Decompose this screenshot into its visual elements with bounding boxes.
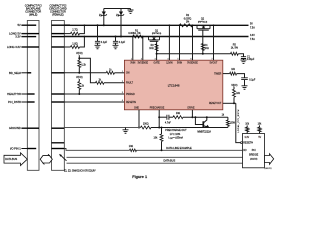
svg-text:PCI: PCI — [252, 149, 256, 152]
svg-text:5VSENSE: 5VSENSE — [187, 63, 198, 65]
svg-text:= ±55mA: = ±55mA — [173, 137, 183, 140]
resistor R5 1k 5% — [231, 52, 239, 55]
DATA BUS arrow into backplane — [4, 153, 27, 166]
svg-text:V(I/O): V(I/O) — [76, 52, 83, 55]
svg-text:2.7Ω: 2.7Ω — [72, 28, 78, 32]
resistor R1 0.006 ohm — [133, 35, 143, 38]
node reset bubble — [241, 142, 243, 144]
resistor 1.8 ohm (LONG 3.3V) — [64, 46, 70, 48]
svg-text:0.007Ω: 0.007Ω — [184, 18, 192, 20]
wire I/O PIN 1 line — [64, 149, 129, 151]
female extra socket bar — [52, 142, 65, 144]
wire precharge out row — [159, 127, 228, 129]
svg-text:3: 3 — [122, 92, 123, 94]
svg-text:1V ± 10%: 1V ± 10% — [170, 133, 181, 136]
wire BD_SEL# to ON — [64, 72, 106, 74]
svg-text:GND: GND — [134, 108, 139, 110]
svg-text:12VIN: 12VIN — [166, 63, 173, 65]
data bus entry arrow — [60, 154, 67, 161]
svg-text:7: 7 — [212, 58, 213, 60]
resistor 10k (3.3V pull-up) — [246, 132, 248, 134]
svg-text:PWRGD: PWRGD — [126, 94, 135, 96]
wire data bus lines — [67, 156, 243, 158]
resistor R2 0.007 ohm — [179, 24, 192, 27]
resistor 100 ohm — [141, 126, 152, 129]
svg-text:7.5A: 7.5A — [250, 38, 255, 41]
circuit card connector J2 (female) — [52, 21, 65, 171]
svg-text:1k, 5%: 1k, 5% — [231, 48, 238, 50]
svg-text:GROUND: GROUND — [9, 126, 21, 130]
svg-text:LONG 3.3V: LONG 3.3V — [7, 45, 21, 49]
svg-text:Z1, Z2: SMAJ10CA OR EQUIV: Z1, Z2: SMAJ10CA OR EQUIV — [64, 170, 96, 173]
wire LOCAL_PCI_RST# — [236, 103, 241, 142]
PCI bridge U2 — [243, 134, 265, 168]
svg-text:RESETIN: RESETIN — [126, 102, 136, 104]
wire LONG 5V riser — [80, 25, 85, 33]
svg-text:1: 1 — [131, 58, 132, 60]
svg-text:LTC1646: LTC1646 — [168, 83, 180, 87]
svg-text:I/O PIN 1: I/O PIN 1 — [10, 147, 21, 151]
svg-text:1.8Ω: 1.8Ω — [72, 42, 78, 46]
svg-text:1%: 1% — [186, 22, 189, 24]
svg-text:V(I/O): V(I/O) — [76, 76, 83, 79]
svg-text:0.1μF: 0.1μF — [249, 79, 256, 81]
wire 5VIN tap — [179, 25, 181, 60]
svg-text:FAULT: FAULT — [126, 82, 134, 85]
svg-text:HEALTHY#: HEALTHY# — [7, 92, 21, 96]
svg-text:0.01μF: 0.01μF — [247, 59, 255, 61]
svg-text:ON: ON — [126, 73, 130, 75]
bus double arrow between connectors — [40, 156, 52, 163]
zener Z1 — [103, 9, 105, 26]
svg-text:PCI_RST#: PCI_RST# — [8, 100, 21, 104]
svg-text:0.1μF: 0.1μF — [119, 41, 126, 44]
svg-text:10Ω: 10Ω — [149, 48, 154, 50]
wire LONG 3.3V riser — [80, 37, 85, 48]
svg-text:10Ω: 10Ω — [176, 113, 181, 115]
svg-text:PRECHARGE: PRECHARGE — [150, 107, 165, 110]
wire GATE pin lead — [156, 41, 158, 60]
svg-text:(MALE): (MALE) — [29, 13, 37, 17]
svg-text:3VSENSE: 3VSENSE — [137, 63, 148, 65]
svg-text:DATA BUS: DATA BUS — [164, 160, 176, 163]
svg-text:6: 6 — [191, 58, 192, 60]
svg-text:2: 2 — [122, 81, 123, 83]
svg-text:I/O: I/O — [243, 149, 246, 152]
wire 5V rail — [64, 24, 70, 26]
resistor 10 ohm (drive) — [169, 116, 173, 118]
capacitor C1 0.01uF (gate) — [238, 54, 243, 57]
svg-text:BD_SEL#: BD_SEL# — [9, 71, 21, 75]
ground (card) — [125, 128, 127, 130]
svg-text:(FEMALE): (FEMALE) — [52, 13, 64, 17]
svg-text:DRIVE: DRIVE — [187, 108, 194, 110]
wire gate line — [157, 53, 231, 55]
resistor 10k (timer) — [230, 72, 237, 75]
capacitor 0.1uF (timer) — [237, 74, 245, 78]
svg-text:10Ω: 10Ω — [204, 48, 209, 50]
wire 5VOUT tap — [213, 25, 215, 60]
svg-text:2: 2 — [141, 58, 142, 60]
svg-text:7.5A: 7.5A — [250, 26, 255, 29]
resistor R3 10 ohm — [155, 44, 158, 51]
wire zener top bus — [104, 8, 131, 10]
resistor 10k (precharge to line) — [161, 128, 163, 135]
capacitor 0.1uF (5V) — [97, 25, 99, 41]
svg-text:PRECHARGE OUT: PRECHARGE OUT — [165, 129, 187, 132]
svg-text:MMBT2222A: MMBT2222A — [197, 130, 211, 133]
resistor 1k 1/2W — [227, 117, 229, 120]
wire PCI_RST# to RESETIN — [64, 101, 124, 103]
svg-text:BRIDGE: BRIDGE — [249, 153, 259, 156]
wire 3VSENSE tap — [142, 37, 144, 61]
svg-text:1: 1 — [122, 71, 123, 73]
resistor R4 10 ohm — [202, 30, 204, 54]
resistor 1k (ON) — [106, 71, 114, 74]
transistor Q1 IRF7413 — [148, 37, 150, 40]
wire ground row — [64, 127, 140, 129]
svg-text:(IRF7413): (IRF7413) — [152, 33, 162, 35]
capacitor 4.7nF — [167, 115, 169, 120]
svg-text:LOCAL_PCI_RST#: LOCAL_PCI_RST# — [237, 109, 240, 133]
svg-text:3.3V: 3.3V — [250, 35, 255, 37]
svg-text:5VOUT: 5VOUT — [210, 63, 218, 65]
svg-text:3: 3 — [155, 58, 156, 60]
svg-text:4.7nF: 4.7nF — [165, 122, 172, 124]
svg-text:100Ω: 100Ω — [143, 123, 149, 125]
svg-text:DATA LINE EXAMPLE: DATA LINE EXAMPLE — [166, 146, 192, 150]
svg-text:10Ω: 10Ω — [129, 146, 134, 148]
svg-text:RESETOUT: RESETOUT — [209, 103, 222, 105]
wire 3.3V rail — [64, 36, 248, 38]
svg-text:3.3V: 3.3V — [244, 137, 249, 139]
svg-text:5V: 5V — [17, 23, 20, 27]
wire 3VIN tap — [132, 37, 134, 61]
wire drive line — [159, 116, 166, 118]
wire 12VIN tap — [168, 25, 170, 60]
op-amp U1 LTC1646 hot swap controller — [124, 60, 222, 110]
resistor 10k (5V pull-up) — [259, 132, 261, 134]
svg-text:TIMER: TIMER — [214, 73, 221, 75]
bus arrow out of bridge — [265, 154, 274, 165]
transistor Q2 IRF7413 — [196, 25, 198, 28]
backplane connector J1 (male) — [27, 21, 39, 171]
svg-text:RESET#: RESET# — [243, 142, 253, 145]
wire HEALTHY# to PWRGD — [64, 93, 124, 95]
svg-text:V(I/O): V(I/O) — [231, 85, 237, 87]
svg-text:1/2W: 1/2W — [230, 123, 236, 125]
svg-text:5VIN: 5VIN — [177, 63, 182, 65]
resistor 2.7 ohm (LONG 5V) — [64, 33, 70, 35]
capacitor 0.1uF (3.3V) — [115, 37, 117, 42]
svg-text:5V: 5V — [250, 23, 253, 25]
resistor 1k (FAULT) — [79, 58, 95, 83]
svg-text:4: 4 — [167, 58, 168, 60]
svg-text:Figure 1: Figure 1 — [132, 175, 147, 179]
transistor Q3 MMBT2222A — [202, 121, 204, 127]
svg-text:5V: 5V — [258, 137, 261, 139]
svg-text:(21154): (21154) — [250, 158, 258, 160]
svg-text:1646 F01: 1646 F01 — [264, 168, 271, 170]
svg-text:GATE: GATE — [154, 62, 161, 65]
svg-text:4: 4 — [122, 100, 123, 102]
svg-text:3VIN: 3VIN — [130, 63, 135, 65]
svg-text:(IRF7413): (IRF7413) — [198, 21, 208, 23]
zener Z2 — [120, 9, 122, 37]
wire 5VSENSE tap — [192, 25, 194, 60]
svg-text:DATA BUS: DATA BUS — [5, 158, 17, 161]
svg-text:0.006Ω, 1%: 0.006Ω, 1% — [128, 33, 140, 35]
svg-text:3.3V: 3.3V — [15, 35, 21, 39]
ground (zener bus) — [130, 9, 132, 11]
svg-text:5: 5 — [178, 58, 179, 60]
svg-text:0.1μF: 0.1μF — [101, 41, 108, 44]
